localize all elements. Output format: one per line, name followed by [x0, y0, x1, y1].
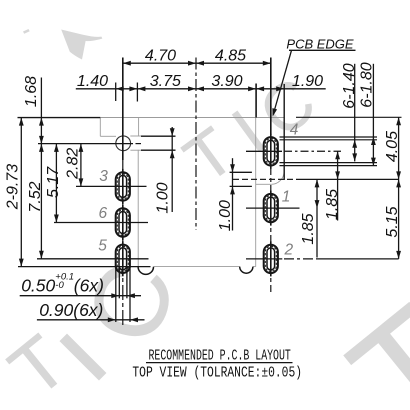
slot extension lines 0.50 — [118, 266, 120, 298]
svg-text:1.40: 1.40 — [77, 73, 108, 90]
pad 4 — [264, 134, 278, 169]
pad 6 crosshair line — [54, 222, 148, 224]
pad 4 crosshair line — [246, 150, 282, 152]
svg-text:1.00: 1.00 — [155, 182, 172, 213]
dim 2-9.73 — [20, 118, 22, 267]
PCB edge vertical line — [283, 84, 285, 180]
dim 6-1.80 — [372, 64, 374, 166]
boss circle crosshair line — [38, 143, 133, 145]
svg-text:6: 6 — [98, 205, 107, 222]
svg-text:4: 4 — [290, 121, 299, 138]
reference line top left (y=117.6) — [18, 117, 101, 119]
svg-text:3: 3 — [99, 168, 108, 185]
svg-text:1.85: 1.85 — [300, 213, 317, 244]
leader arrow — [270, 108, 277, 117]
dim 6-1.40 — [354, 64, 356, 162]
shield hole reference line y=266.6 — [18, 266, 151, 268]
dim 1.00 right — [232, 158, 234, 230]
pad 3 crosshair line — [76, 185, 147, 187]
pad 5 — [116, 241, 130, 276]
centerline middle — [195, 58, 197, 231]
svg-text:1.90: 1.90 — [292, 73, 323, 90]
pad 2 crosshair line — [246, 258, 282, 260]
svg-text:5.17: 5.17 — [45, 166, 62, 198]
shield hole semicircle right — [240, 267, 253, 274]
PCB EDGE underline — [289, 49, 356, 51]
svg-text:2: 2 — [283, 242, 293, 259]
dim 2.82 — [80, 144, 82, 187]
svg-text:5.15: 5.15 — [384, 206, 401, 237]
svg-text:4.05: 4.05 — [384, 131, 401, 162]
svg-text:4.70: 4.70 — [145, 47, 176, 64]
dim 1.85 b — [337, 151, 339, 220]
centerline left pad column — [122, 58, 124, 161]
dim line 0.50 — [20, 295, 141, 297]
pad width extension lines 0.90 — [115, 266, 117, 322]
svg-text:1.00: 1.00 — [217, 200, 234, 231]
dim line 1.40 / 3.75 / 3.90 / 1.90 — [76, 88, 326, 90]
pad 3 — [116, 169, 130, 204]
pad4 extension lines right — [280, 136, 378, 138]
svg-text:6-1.40: 6-1.40 — [341, 63, 358, 108]
svg-text:0.50: 0.50 — [21, 276, 55, 296]
svg-text:1: 1 — [282, 189, 291, 206]
svg-text:7.52: 7.52 — [27, 181, 44, 212]
svg-text:1.68: 1.68 — [23, 76, 40, 107]
pad 5 crosshair line — [37, 258, 149, 260]
svg-text:(6x): (6x) — [74, 276, 104, 296]
svg-text:4.85: 4.85 — [215, 47, 246, 64]
pad 2 — [264, 241, 278, 276]
pad 1 — [264, 191, 278, 226]
centerline right pad column — [270, 58, 272, 136]
pad 1 crosshair line — [246, 207, 300, 209]
svg-text:TOP VIEW (TOLRANCE:±0.05): TOP VIEW (TOLRANCE:±0.05) — [132, 364, 302, 381]
dim 4.05 / 5.15 — [398, 117, 400, 259]
svg-text:6-1.80: 6-1.80 — [359, 62, 376, 107]
shield hole semicircle left — [138, 267, 153, 275]
dim 1.68 / 7.52 shared line — [40, 78, 42, 259]
pad 6 — [116, 205, 130, 240]
dim 1.85 a — [316, 179, 318, 257]
PCB EDGE leader line — [273, 50, 291, 114]
ref lines for 1.00 right — [230, 171, 252, 173]
dim line 4.70 / 4.85 — [123, 62, 271, 64]
dim line 0.90 — [37, 319, 145, 321]
top reference extension right — [296, 116, 402, 118]
connector part outline — [100, 117, 284, 119]
svg-text:1.85: 1.85 — [324, 189, 341, 220]
svg-text:-0: -0 — [55, 280, 64, 291]
svg-text:3.90: 3.90 — [211, 73, 242, 90]
svg-text:2.82: 2.82 — [65, 148, 82, 180]
ref lines for 1.00 left (slot edges) — [141, 135, 176, 137]
svg-text:PCB EDGE: PCB EDGE — [286, 36, 354, 51]
svg-text:0.90(6x): 0.90(6x) — [39, 300, 103, 320]
dim 5.17 — [55, 144, 57, 223]
svg-text:2-9.73: 2-9.73 — [4, 164, 21, 210]
svg-text:3.75: 3.75 — [150, 73, 181, 90]
dim 1.00 left — [171, 127, 173, 212]
svg-text:5: 5 — [98, 238, 107, 255]
extension ticks top — [115, 83, 117, 102]
svg-text:RECOMMENDED P.C.B LAYOUT: RECOMMENDED P.C.B LAYOUT — [149, 347, 292, 365]
boss circle — [116, 136, 131, 151]
hidden edge dashed line y=179.4 — [233, 178, 296, 180]
